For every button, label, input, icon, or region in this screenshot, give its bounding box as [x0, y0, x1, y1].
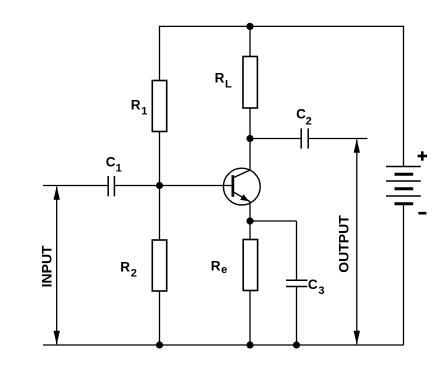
- resistor R1: [131, 81, 167, 132]
- svg-text:C: C: [106, 155, 116, 170]
- svg-text:INPUT: INPUT: [39, 245, 55, 287]
- svg-text:OUTPUT: OUTPUT: [335, 215, 351, 273]
- node Re bottom: [246, 341, 253, 348]
- wire emitter down: [249, 202, 251, 240]
- svg-text:2: 2: [306, 116, 312, 128]
- wire C2 left: [250, 138, 301, 140]
- node emitter / C3: [246, 217, 253, 224]
- node R2 bottom: [156, 341, 163, 348]
- wire RL bottom to collector: [249, 108, 251, 170]
- svg-text:R: R: [120, 260, 130, 275]
- wire collector branch top: [249, 26, 251, 56]
- wire R1 bottom to base node: [159, 132, 161, 186]
- resistor RL: [215, 57, 258, 109]
- resistor R2: [120, 240, 166, 291]
- resistor Re: [211, 240, 258, 291]
- battery minus sign: [418, 212, 426, 215]
- wire emitter to C3 branch: [250, 220, 297, 222]
- wire Re bottom: [249, 291, 251, 346]
- svg-text:e: e: [221, 264, 227, 276]
- node C3 bottom: [293, 341, 300, 348]
- wire C1 to base: [114, 185, 231, 187]
- svg-text:1: 1: [116, 162, 122, 174]
- capacitor C3: [286, 277, 325, 297]
- node collector / C2: [246, 135, 253, 142]
- wire C3 bottom: [296, 287, 298, 346]
- node base junction: [156, 182, 163, 189]
- svg-text:R: R: [211, 259, 221, 274]
- svg-text:C: C: [308, 277, 318, 292]
- wire C2 right to output: [308, 138, 367, 140]
- svg-text:1: 1: [141, 106, 147, 118]
- wire C3 top: [296, 221, 298, 280]
- wire input lead: [43, 185, 108, 187]
- svg-text:L: L: [225, 79, 232, 91]
- wire R2 bottom to ground rail: [159, 291, 161, 345]
- svg-text:C: C: [296, 107, 306, 122]
- svg-text:R: R: [215, 71, 225, 86]
- capacitor C1: [106, 155, 122, 197]
- wire bottom ground rail: [43, 344, 404, 346]
- wire R2 top from base node: [159, 186, 161, 241]
- battery B1: [386, 151, 427, 213]
- wire battery top: [403, 26, 405, 167]
- OUTPUT dimension arrow: [335, 139, 360, 345]
- transistor Q1: [223, 168, 260, 205]
- battery plus sign: [418, 155, 427, 158]
- capacitor C2: [296, 107, 312, 149]
- svg-text:2: 2: [131, 268, 137, 280]
- INPUT dimension arrow: [39, 186, 60, 345]
- svg-text:3: 3: [318, 285, 324, 297]
- wire top supply rail: [160, 25, 404, 27]
- node top rail / collector: [246, 23, 253, 30]
- wire R1 branch top: [159, 26, 161, 81]
- svg-text:R: R: [131, 98, 141, 113]
- wire battery bottom: [403, 204, 405, 345]
